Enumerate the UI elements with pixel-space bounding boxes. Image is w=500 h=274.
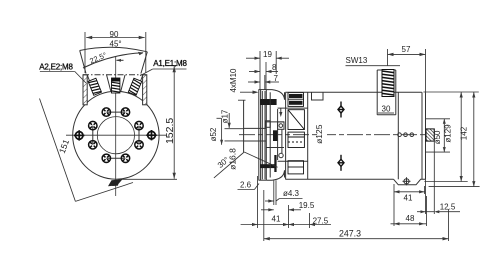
svg-text:4xM10: 4xM10 bbox=[229, 68, 238, 93]
svg-text:41: 41 bbox=[272, 215, 281, 224]
svg-text:22.5°: 22.5° bbox=[88, 50, 108, 65]
svg-text:41: 41 bbox=[404, 194, 413, 203]
svg-text:ø17: ø17 bbox=[221, 109, 230, 123]
svg-text:152.5: 152.5 bbox=[164, 118, 176, 144]
svg-text:ø50: ø50 bbox=[433, 130, 442, 144]
svg-text:27.5: 27.5 bbox=[313, 217, 329, 226]
svg-text:ø125: ø125 bbox=[314, 124, 324, 144]
svg-text:SW13: SW13 bbox=[346, 56, 368, 65]
svg-text:19: 19 bbox=[263, 50, 272, 59]
svg-text:19.5: 19.5 bbox=[299, 201, 315, 210]
svg-text:57: 57 bbox=[402, 45, 411, 54]
svg-text:247.3: 247.3 bbox=[339, 229, 361, 239]
svg-text:A2,E2;M8: A2,E2;M8 bbox=[39, 63, 73, 72]
svg-text:142: 142 bbox=[460, 126, 469, 140]
svg-text:ø52: ø52 bbox=[209, 127, 218, 141]
svg-text:90: 90 bbox=[110, 30, 119, 39]
svg-text:48: 48 bbox=[406, 214, 415, 223]
svg-text:12.5: 12.5 bbox=[440, 203, 456, 212]
svg-text:30: 30 bbox=[382, 105, 391, 114]
svg-text:2.6: 2.6 bbox=[240, 181, 252, 190]
svg-text:ø4.3: ø4.3 bbox=[283, 189, 300, 198]
svg-text:151: 151 bbox=[57, 138, 71, 155]
svg-text:A1,E1;M8: A1,E1;M8 bbox=[153, 59, 187, 68]
svg-text:ø129: ø129 bbox=[444, 124, 453, 143]
svg-text:7: 7 bbox=[274, 74, 279, 83]
svg-text:ø16.8: ø16.8 bbox=[228, 148, 238, 170]
svg-text:45°: 45° bbox=[110, 40, 122, 49]
svg-text:8: 8 bbox=[272, 63, 277, 72]
